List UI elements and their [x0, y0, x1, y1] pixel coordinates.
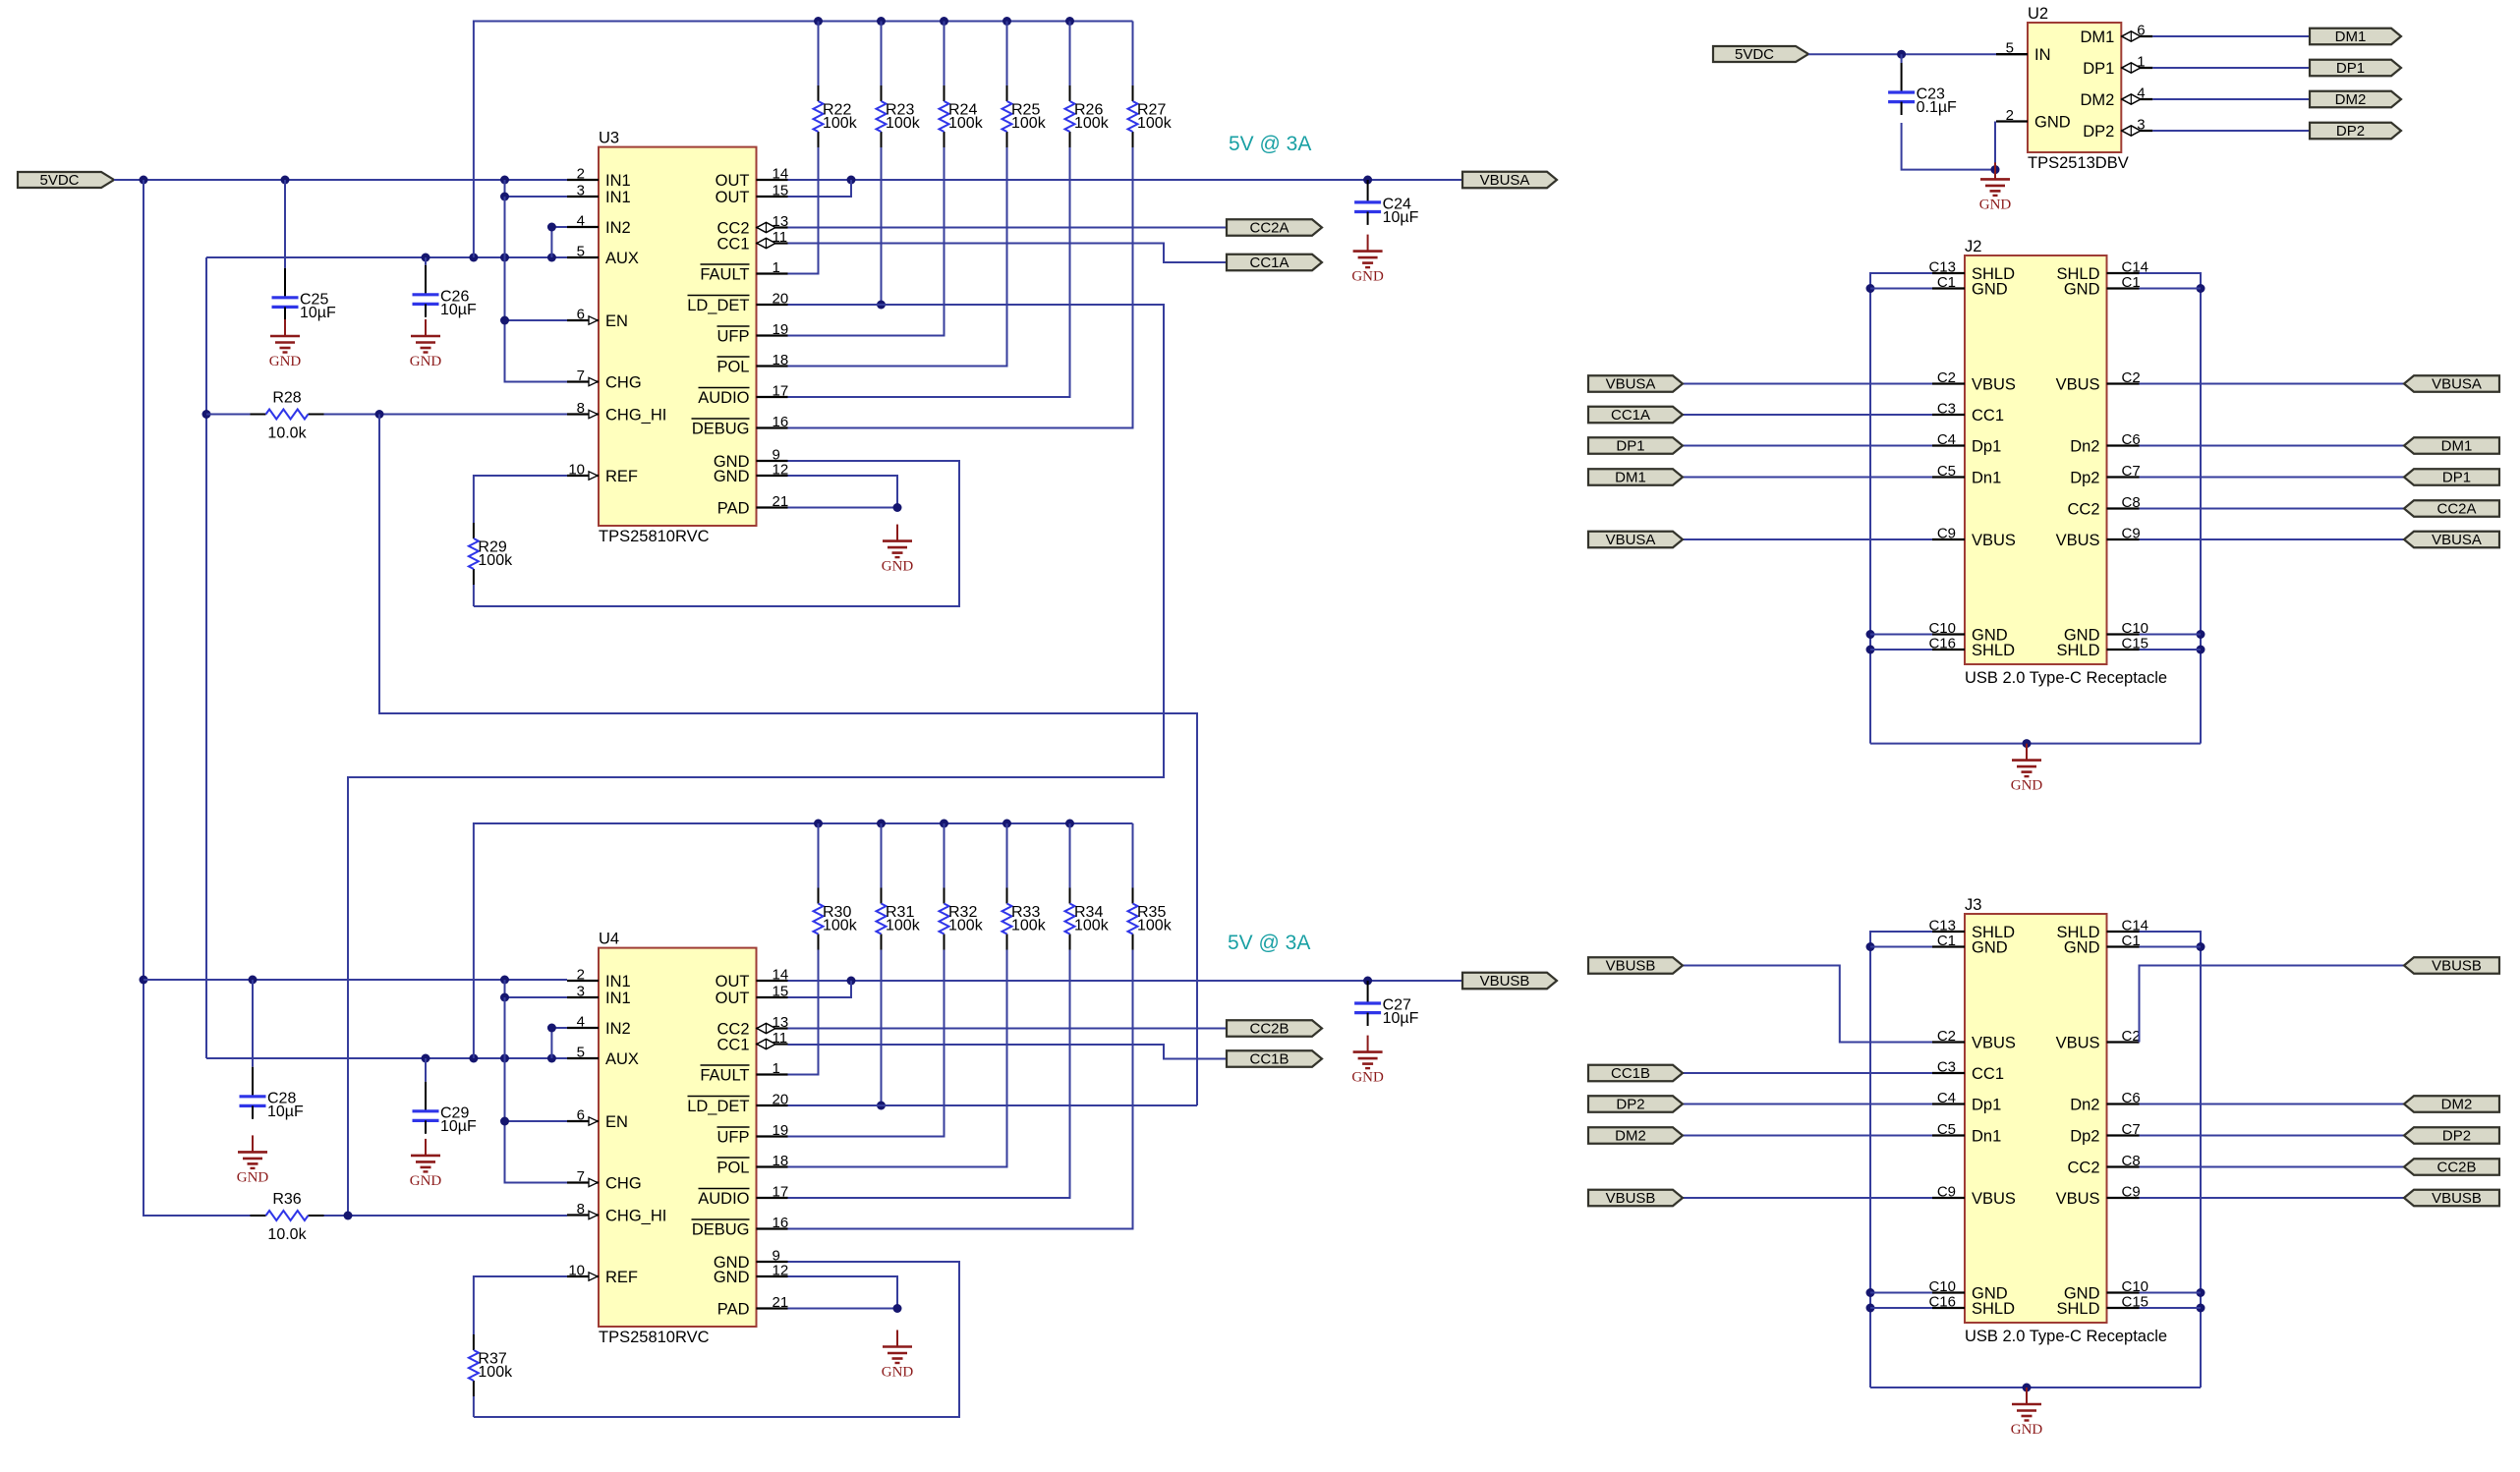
- resistor R23: [877, 85, 921, 147]
- power flag 5VDC (U2): [1713, 46, 1808, 63]
- svg-text:8: 8: [577, 400, 585, 417]
- svg-text:GND: GND: [882, 559, 914, 575]
- svg-text:C9: C9: [2122, 526, 2141, 542]
- svg-text:DM1: DM1: [2335, 28, 2367, 45]
- wire DM1 U2: [2152, 35, 2310, 37]
- resistor R32: [940, 888, 984, 950]
- svg-text:100k: 100k: [1074, 115, 1110, 132]
- wire VBUSA out: [788, 176, 1463, 185]
- svg-text:10µF: 10µF: [440, 302, 477, 318]
- resistor R36: [251, 1191, 324, 1243]
- svg-text:SHLD: SHLD: [1972, 642, 2015, 659]
- wire J3 to CC2B: [2140, 1166, 2405, 1168]
- net flag CC1B: [1227, 1050, 1322, 1067]
- svg-text:CHG: CHG: [605, 1174, 642, 1192]
- net flag CC2A right: [2404, 500, 2499, 517]
- svg-text:10µF: 10µF: [1383, 209, 1419, 226]
- svg-text:VBUS: VBUS: [1972, 1034, 2016, 1051]
- svg-text:UFP: UFP: [717, 327, 750, 345]
- svg-text:C16: C16: [1928, 1294, 1956, 1311]
- svg-text:REF: REF: [605, 468, 638, 485]
- svg-text:PAD: PAD: [717, 1300, 750, 1318]
- svg-text:SHLD: SHLD: [2056, 1300, 2099, 1318]
- svg-text:3: 3: [577, 984, 585, 1000]
- net flag DM1 right: [2404, 437, 2499, 454]
- svg-text:Dp2: Dp2: [2070, 1127, 2099, 1145]
- capacitor C24: [1354, 180, 1419, 226]
- wire resistor bus bottom: [474, 820, 1133, 1059]
- svg-text:IN1: IN1: [605, 172, 631, 190]
- wire J3 C10 right: [2140, 1292, 2202, 1294]
- wire J2 C16 left: [1870, 649, 1932, 651]
- svg-text:1: 1: [773, 259, 780, 276]
- svg-text:VBUS: VBUS: [2056, 532, 2100, 549]
- ground: [269, 319, 302, 369]
- svg-text:OUT: OUT: [716, 189, 750, 206]
- net flag DP1: [1588, 437, 1683, 454]
- svg-text:OUT: OUT: [716, 990, 750, 1007]
- svg-text:100k: 100k: [948, 115, 984, 132]
- svg-text:VBUSB: VBUSB: [1606, 958, 1656, 975]
- svg-text:3: 3: [577, 183, 585, 199]
- svg-text:DP1: DP1: [2336, 60, 2365, 77]
- svg-text:C1: C1: [1937, 933, 1956, 949]
- svg-text:SHLD: SHLD: [1972, 1300, 2015, 1318]
- wire R23 to LD_DET: [877, 147, 886, 310]
- wire IN2 jog: [547, 223, 567, 258]
- svg-text:C1: C1: [1937, 274, 1956, 291]
- wire J3 C1 right: [2140, 946, 2202, 948]
- wire R28 right: [324, 414, 380, 416]
- svg-text:R36: R36: [272, 1191, 301, 1208]
- net flag DM1: [1588, 469, 1683, 485]
- net flag VBUSA: [1588, 532, 1683, 548]
- svg-text:100k: 100k: [1137, 115, 1173, 132]
- svg-text:6: 6: [577, 1107, 585, 1124]
- svg-text:CC1B: CC1B: [1249, 1051, 1289, 1068]
- svg-text:GND: GND: [269, 354, 302, 369]
- svg-text:100k: 100k: [886, 918, 921, 934]
- svg-text:2: 2: [577, 967, 585, 984]
- svg-text:VBUS: VBUS: [2056, 1190, 2100, 1208]
- svg-text:GND: GND: [714, 1269, 750, 1286]
- svg-text:15: 15: [773, 183, 789, 199]
- wire CC2 U4: [788, 1028, 1228, 1030]
- svg-text:C8: C8: [2122, 1153, 2141, 1169]
- svg-text:14: 14: [773, 166, 789, 183]
- svg-text:19: 19: [773, 321, 789, 338]
- wire J2 to DP1: [2140, 477, 2405, 479]
- svg-text:DP2: DP2: [1616, 1097, 1644, 1113]
- wire DM1 to J2: [1683, 477, 1932, 479]
- net flag VBUSA right: [2404, 532, 2499, 548]
- svg-text:DM1: DM1: [2441, 438, 2473, 455]
- svg-text:OUT: OUT: [716, 973, 750, 991]
- wire J2 to VBUSA: [2140, 538, 2405, 540]
- wire IN1 pin3 jog U4: [500, 980, 567, 1002]
- svg-text:100k: 100k: [1011, 115, 1047, 132]
- svg-text:10: 10: [568, 462, 585, 479]
- svg-text:17: 17: [773, 1184, 789, 1201]
- svg-text:5V @ 3A: 5V @ 3A: [1228, 932, 1310, 954]
- wire R23 top lead: [881, 22, 883, 86]
- wire J2 C10 right: [2140, 634, 2202, 636]
- svg-text:Dn2: Dn2: [2070, 437, 2099, 455]
- wire EN CHG feed: [500, 197, 567, 382]
- svg-text:4: 4: [577, 213, 585, 230]
- svg-text:LD_DET: LD_DET: [687, 1098, 749, 1115]
- svg-text:DEBUG: DEBUG: [692, 420, 750, 437]
- wire CHG_HI to U4 LD_DET: [379, 415, 1197, 1106]
- wire J3 to DP2: [2140, 1135, 2405, 1137]
- svg-text:21: 21: [773, 493, 789, 510]
- wire J3 gnd rail: [1870, 1384, 2201, 1392]
- svg-text:C9: C9: [1937, 526, 1956, 542]
- net flag CC1A: [1588, 407, 1683, 424]
- svg-text:C1: C1: [2122, 274, 2141, 291]
- wire OUT15 join: [788, 180, 852, 197]
- svg-text:AUX: AUX: [605, 250, 639, 267]
- wire R22 top lead: [818, 22, 820, 86]
- svg-text:USB 2.0 Type-C Receptacle: USB 2.0 Type-C Receptacle: [1965, 1328, 2167, 1345]
- svg-text:C9: C9: [2122, 1184, 2141, 1201]
- wire U3 GND12 PAD: [788, 476, 902, 512]
- svg-text:10µF: 10µF: [300, 305, 336, 321]
- svg-text:AUDIO: AUDIO: [698, 389, 749, 407]
- ground: [1351, 1036, 1384, 1086]
- svg-text:100k: 100k: [1137, 918, 1173, 934]
- resistor R25: [1002, 85, 1047, 147]
- svg-text:VBUSB: VBUSB: [2432, 1190, 2482, 1207]
- IC U3 TPS25810RVC: [567, 130, 788, 545]
- wire J2 to CC2A: [2140, 508, 2405, 510]
- svg-text:20: 20: [773, 1092, 789, 1108]
- net flag CC2A: [1227, 219, 1322, 236]
- wire R25 to pin: [788, 147, 1007, 367]
- wire R33 top lead: [1006, 823, 1008, 888]
- svg-text:IN: IN: [2034, 46, 2051, 64]
- svg-text:C4: C4: [1937, 1090, 1956, 1106]
- svg-text:VBUS: VBUS: [2056, 375, 2100, 393]
- wire C23 to gnd: [1902, 123, 1995, 170]
- svg-text:GND: GND: [410, 1173, 442, 1189]
- svg-text:EN: EN: [605, 1113, 628, 1131]
- svg-text:C6: C6: [2122, 1090, 2141, 1106]
- net flag DP1 right: [2404, 469, 2499, 485]
- wire U4 gnd rail: [474, 1262, 959, 1417]
- resistor R24: [940, 85, 984, 147]
- svg-text:CC1: CC1: [716, 235, 749, 253]
- wire DM2 U2: [2152, 98, 2310, 100]
- svg-text:R28: R28: [272, 390, 301, 407]
- svg-text:VBUS: VBUS: [1972, 532, 2016, 549]
- wire REF U3: [474, 476, 567, 523]
- svg-text:VBUSA: VBUSA: [1606, 532, 1656, 548]
- capacitor C28: [240, 980, 305, 1120]
- wire U4 GND12 PAD: [788, 1276, 902, 1313]
- wire R24 to pin: [788, 147, 945, 336]
- wire IN1 pin3 jog: [500, 180, 567, 201]
- wire CHG_HI U4: [344, 1212, 568, 1220]
- svg-text:C10: C10: [1928, 1278, 1956, 1295]
- svg-text:VBUS: VBUS: [2056, 1034, 2100, 1051]
- wire R26 to pin: [788, 147, 1070, 397]
- svg-text:J2: J2: [1965, 238, 1981, 255]
- svg-text:18: 18: [773, 352, 789, 368]
- svg-text:IN2: IN2: [605, 219, 631, 237]
- wire AUX rail U3: [206, 254, 567, 262]
- svg-text:GND: GND: [1972, 938, 2008, 956]
- svg-text:CC1A: CC1A: [1249, 255, 1289, 271]
- svg-text:20: 20: [773, 291, 789, 308]
- svg-text:AUDIO: AUDIO: [698, 1190, 749, 1208]
- wire R27 top lead: [1132, 22, 1134, 86]
- svg-text:100k: 100k: [823, 115, 858, 132]
- svg-text:C2: C2: [2122, 369, 2141, 386]
- svg-text:100k: 100k: [823, 918, 858, 934]
- capacitor C27: [1354, 981, 1419, 1027]
- resistor R34: [1065, 888, 1110, 950]
- wire R27 to pin: [788, 147, 1133, 428]
- wire R36 right: [324, 1215, 349, 1217]
- wire J3 to VBUSB: [2140, 1197, 2405, 1199]
- svg-text:Dn2: Dn2: [2070, 1096, 2099, 1113]
- svg-text:CC1: CC1: [1972, 1065, 2004, 1083]
- wire J2 C1 right: [2140, 288, 2202, 290]
- resistor R27: [1128, 85, 1173, 147]
- svg-text:C2: C2: [1937, 369, 1956, 386]
- capacitor C29: [413, 1058, 478, 1135]
- svg-text:C13: C13: [1928, 918, 1956, 934]
- net flag DM2 right: [2404, 1096, 2499, 1112]
- svg-text:21: 21: [773, 1294, 789, 1311]
- wire VBUSB to J3: [1683, 1197, 1932, 1199]
- svg-text:100k: 100k: [1074, 918, 1110, 934]
- net flag DP1: [2310, 60, 2401, 77]
- svg-text:GND: GND: [2011, 778, 2043, 794]
- wire VBUSA to J2: [1683, 383, 1932, 385]
- wire J3 C10 left: [1870, 1292, 1932, 1294]
- wire REF U4: [474, 1276, 567, 1334]
- IC U2 TPS2513DBV: [1996, 5, 2152, 172]
- wire J3 shield bus left: [1866, 932, 1933, 1387]
- net flag VBUSB (J3): [1588, 1190, 1683, 1207]
- net flag VBUSB (J3 left): [1588, 957, 1683, 974]
- svg-text:CHG: CHG: [605, 373, 642, 391]
- svg-text:C6: C6: [2122, 431, 2141, 448]
- svg-text:6: 6: [577, 307, 585, 323]
- svg-text:7: 7: [577, 1168, 585, 1185]
- wire J3 C1 left: [1870, 946, 1932, 948]
- resistor R30: [814, 888, 858, 950]
- wire AUX rail U4: [206, 1054, 567, 1063]
- svg-text:U4: U4: [599, 931, 619, 948]
- svg-text:CHG_HI: CHG_HI: [605, 406, 666, 424]
- wire 5VDC to R36: [140, 180, 252, 1216]
- svg-text:UFP: UFP: [717, 1128, 750, 1146]
- capacitor C23: [1888, 54, 1957, 116]
- resistor R37: [469, 1334, 513, 1396]
- net flag VBUSA: [1588, 375, 1683, 392]
- svg-text:POL: POL: [716, 1159, 749, 1176]
- svg-text:Dp1: Dp1: [1972, 437, 2001, 455]
- resistor R29: [469, 523, 513, 585]
- wire R31 to LD_DET: [877, 950, 886, 1110]
- wire R26 top lead: [1069, 22, 1071, 86]
- net flag DM2: [2310, 91, 2401, 108]
- svg-text:C7: C7: [2122, 1121, 2141, 1138]
- wire R22 to pin: [788, 147, 819, 274]
- svg-text:5VDC: 5VDC: [39, 172, 79, 189]
- svg-text:DP2: DP2: [2336, 123, 2365, 140]
- wire VBUSA to J2: [1683, 538, 1932, 540]
- wire R24 top lead: [944, 22, 945, 86]
- wire IN1 rail U4: [143, 976, 567, 985]
- svg-text:10.0k: 10.0k: [267, 1226, 307, 1243]
- svg-text:100k: 100k: [478, 552, 513, 569]
- wire J3 shield bus right: [2140, 932, 2205, 1387]
- svg-text:C4: C4: [1937, 431, 1956, 448]
- wire R28 left: [206, 414, 251, 416]
- svg-text:CC2B: CC2B: [2436, 1160, 2476, 1176]
- svg-text:GND: GND: [1972, 280, 2008, 298]
- svg-text:TPS25810RVC: TPS25810RVC: [599, 1329, 710, 1346]
- svg-text:C2: C2: [2122, 1028, 2141, 1045]
- wire J3 C15 right: [2140, 1307, 2202, 1309]
- svg-text:FAULT: FAULT: [700, 265, 749, 283]
- svg-text:PAD: PAD: [717, 499, 750, 517]
- svg-text:C10: C10: [1928, 620, 1956, 637]
- power flag 5VDC: [18, 172, 114, 189]
- svg-text:100k: 100k: [948, 918, 984, 934]
- wire resistor bus top: [474, 17, 1133, 257]
- wire CC1B to J3: [1683, 1072, 1932, 1074]
- svg-text:CC2A: CC2A: [2436, 501, 2476, 518]
- svg-text:GND: GND: [1351, 269, 1384, 285]
- svg-text:USB 2.0 Type-C Receptacle: USB 2.0 Type-C Receptacle: [1965, 669, 2167, 687]
- svg-text:GND: GND: [1351, 1070, 1384, 1086]
- svg-text:EN: EN: [605, 312, 628, 330]
- net flag DP2 right: [2404, 1127, 2499, 1144]
- svg-text:GND: GND: [882, 1365, 914, 1381]
- svg-text:5V @ 3A: 5V @ 3A: [1229, 133, 1311, 155]
- svg-text:5: 5: [577, 244, 585, 260]
- svg-text:REF: REF: [605, 1269, 638, 1286]
- svg-text:10µF: 10µF: [267, 1104, 304, 1120]
- svg-text:VBUS: VBUS: [1972, 1190, 2016, 1208]
- svg-text:POL: POL: [716, 358, 749, 375]
- svg-text:DP1: DP1: [2083, 60, 2114, 78]
- net flag CC2B: [1227, 1020, 1322, 1037]
- svg-text:10.0k: 10.0k: [267, 425, 307, 442]
- net flag VBUSB right: [2404, 957, 2499, 974]
- svg-text:CC1: CC1: [716, 1036, 749, 1053]
- wire J3 C16 left: [1870, 1307, 1932, 1309]
- svg-text:C7: C7: [2122, 463, 2141, 480]
- svg-text:C13: C13: [1928, 259, 1956, 276]
- svg-text:CC1B: CC1B: [1611, 1065, 1650, 1082]
- svg-text:DP1: DP1: [1616, 438, 1644, 455]
- ground: [410, 319, 442, 369]
- wire R34 top lead: [1069, 823, 1071, 888]
- wire J2 to DM1: [2140, 445, 2405, 447]
- wire CC1 U3: [788, 244, 1228, 263]
- net flag DM1: [2310, 28, 2401, 45]
- wire 5VDC rail: [114, 176, 567, 185]
- wire J2 shield bus right: [2140, 273, 2205, 744]
- svg-text:C3: C3: [1937, 401, 1956, 418]
- svg-text:DM1: DM1: [1615, 470, 1646, 486]
- svg-text:2: 2: [577, 166, 585, 183]
- wire U2 GND pin: [1991, 122, 2000, 175]
- net flag VBUSB right: [2404, 1190, 2499, 1207]
- svg-text:0.1µF: 0.1µF: [1917, 99, 1957, 116]
- svg-text:Dn1: Dn1: [1972, 469, 2001, 486]
- resistor R31: [877, 888, 921, 950]
- svg-text:DEBUG: DEBUG: [692, 1220, 750, 1238]
- svg-text:GND: GND: [714, 468, 750, 485]
- wire J2 C15 right: [2140, 649, 2202, 651]
- svg-text:VBUSB: VBUSB: [1480, 973, 1530, 990]
- wire J2 gnd rail: [1870, 739, 2201, 748]
- svg-text:17: 17: [773, 383, 789, 400]
- net flag VBUSA right: [2404, 375, 2499, 392]
- svg-text:GND: GND: [2011, 1422, 2043, 1438]
- svg-text:Dn1: Dn1: [1972, 1127, 2001, 1145]
- svg-text:GND: GND: [2064, 938, 2100, 956]
- wire LD_DET to R36: [348, 305, 1164, 1216]
- svg-text:DP2: DP2: [2083, 123, 2114, 141]
- svg-text:DM2: DM2: [1615, 1128, 1646, 1145]
- wire LD_DET U4 row: [788, 1104, 1198, 1106]
- svg-text:C5: C5: [1937, 1121, 1956, 1138]
- svg-text:IN2: IN2: [605, 1020, 631, 1038]
- resistor R33: [1002, 888, 1047, 950]
- svg-text:4: 4: [577, 1014, 585, 1031]
- wire R25 top lead: [1006, 22, 1008, 86]
- svg-text:C5: C5: [1937, 463, 1956, 480]
- svg-text:IN1: IN1: [605, 189, 631, 206]
- svg-text:100k: 100k: [886, 115, 921, 132]
- wire R33 to pin: [788, 950, 1007, 1167]
- svg-text:TPS2513DBV: TPS2513DBV: [2028, 154, 2129, 172]
- svg-text:VBUSB: VBUSB: [2432, 958, 2482, 975]
- svg-text:IN1: IN1: [605, 973, 631, 991]
- svg-text:DP2: DP2: [2442, 1128, 2471, 1145]
- wire U3 gnd rail: [474, 461, 959, 606]
- capacitor C25: [272, 180, 337, 321]
- wire J3 to DM2: [2140, 1104, 2405, 1105]
- svg-text:SHLD: SHLD: [2056, 642, 2099, 659]
- wire R34 to pin: [788, 950, 1070, 1199]
- svg-text:16: 16: [773, 1215, 789, 1231]
- wire CC1 U4: [788, 1045, 1228, 1059]
- svg-text:DM2: DM2: [2080, 91, 2114, 109]
- svg-text:CC2A: CC2A: [1249, 220, 1289, 237]
- wire VBUSB out: [788, 977, 1463, 986]
- ground: [2011, 744, 2043, 794]
- svg-text:CC2: CC2: [2067, 500, 2099, 518]
- svg-text:DM2: DM2: [2441, 1097, 2473, 1113]
- svg-text:7: 7: [577, 368, 585, 384]
- wire CHG_HI U3: [375, 410, 568, 419]
- wire AUX feed down: [202, 257, 211, 1058]
- wire J2 C10 left: [1870, 634, 1932, 636]
- svg-text:GND: GND: [410, 354, 442, 369]
- svg-text:2: 2: [2006, 107, 2014, 124]
- svg-text:10µF: 10µF: [440, 1118, 477, 1135]
- wire R32 to pin: [788, 950, 945, 1137]
